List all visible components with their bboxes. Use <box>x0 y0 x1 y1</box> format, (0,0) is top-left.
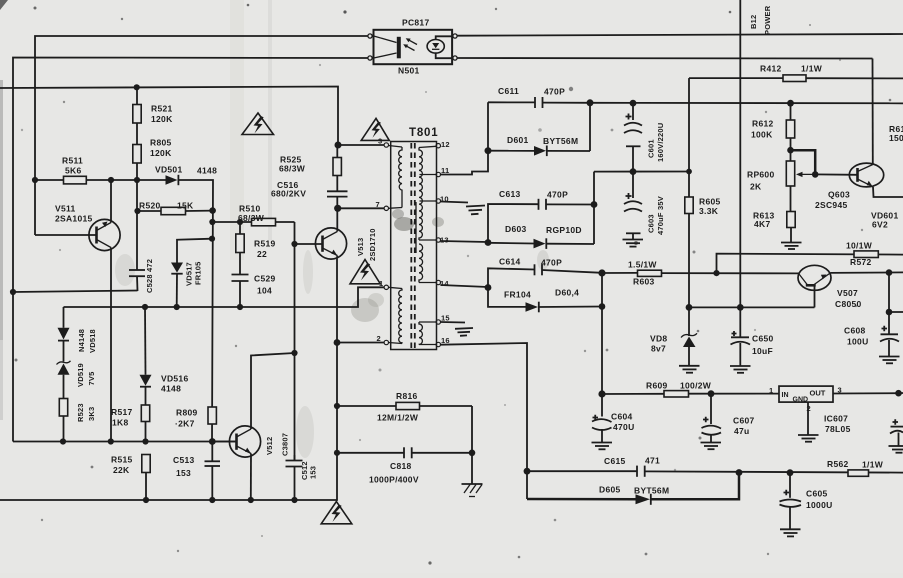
svg-text:C611: C611 <box>498 86 519 96</box>
svg-text:V513: V513 <box>356 238 365 256</box>
resistor R517 <box>111 405 150 442</box>
diode D601 <box>488 135 590 156</box>
capacitor C611 <box>488 86 590 108</box>
lightning triangle warning 1 <box>242 113 274 135</box>
svg-text:FR104: FR104 <box>504 290 531 300</box>
transformer T801 <box>391 127 439 350</box>
node R515 bottom <box>143 497 149 503</box>
wire third bus y87 <box>0 87 338 146</box>
node C611 D601 junction <box>587 99 594 106</box>
resistor R520 <box>139 201 194 215</box>
svg-text:R609: R609 <box>646 381 668 391</box>
resistor R511 <box>62 156 86 184</box>
node R523 bottom <box>60 438 66 444</box>
resistor R603 <box>628 260 662 287</box>
resistor R605 <box>685 172 721 308</box>
capacitor C513 <box>173 442 220 501</box>
wire R805 down through C528 <box>136 163 138 270</box>
transformer secondary winding 13-14 <box>419 244 436 283</box>
label R611 150 edge <box>889 124 903 143</box>
node V511 collector <box>108 177 114 183</box>
svg-text:C604: C604 <box>611 412 633 422</box>
resistor R515 <box>111 455 150 501</box>
ground C650 <box>730 366 751 373</box>
svg-text:150: 150 <box>889 133 903 143</box>
wire V511 collector leg down <box>110 248 112 442</box>
svg-text:3K3: 3K3 <box>87 407 96 421</box>
wire top bus right of optocoupler <box>457 34 903 36</box>
label VD601 6V2 <box>871 211 899 230</box>
wire R603 to V507 collector <box>662 272 799 274</box>
transformer pin 3 <box>378 137 388 148</box>
transformer primary winding 3-7 <box>389 146 403 209</box>
svg-text:GND: GND <box>793 397 809 404</box>
svg-text:120K: 120K <box>151 114 173 124</box>
svg-text:7V5: 7V5 <box>87 372 96 386</box>
svg-text:22K: 22K <box>113 465 130 475</box>
node R609 bus left <box>598 390 605 397</box>
label B12 POWER <box>749 5 772 35</box>
wire Q603 base <box>815 173 857 175</box>
svg-text:R612: R612 <box>752 119 774 129</box>
wire pin3 <box>338 144 384 146</box>
svg-text:RP600: RP600 <box>747 170 775 180</box>
svg-text:V512: V512 <box>265 437 274 455</box>
svg-text:1.5/1W: 1.5/1W <box>628 260 657 270</box>
ground C603 <box>623 240 644 247</box>
node RP600 wiper feedback <box>787 147 794 154</box>
transformer pin 13 <box>436 236 449 245</box>
svg-text:Q603: Q603 <box>828 190 850 200</box>
node VD517 wire <box>209 236 215 242</box>
node R520 right <box>209 207 216 214</box>
svg-text:471: 471 <box>645 456 660 466</box>
ground VD8 <box>679 366 700 373</box>
svg-text:1/1W: 1/1W <box>862 460 884 470</box>
wire R609 to IC607 <box>689 393 780 395</box>
svg-text:470uF 35V: 470uF 35V <box>656 196 665 235</box>
svg-text:N4148: N4148 <box>77 329 86 352</box>
node C607 top <box>708 390 715 397</box>
node C601 bottom <box>630 168 637 175</box>
node V512 emitter bottom <box>248 497 254 503</box>
svg-text:12M/1/2W: 12M/1/2W <box>377 413 419 423</box>
capacitor C650 electrolytic <box>731 307 774 365</box>
wire pin 10 stub <box>441 202 469 203</box>
transformer pin 2 <box>377 334 389 345</box>
transformer pin 10 <box>436 195 449 204</box>
wire pin7 <box>338 207 384 209</box>
resistor R612 <box>751 103 795 161</box>
svg-text:2SD1710: 2SD1710 <box>368 228 377 261</box>
potentiometer RP600 <box>747 161 815 192</box>
resistor R519 <box>236 222 276 259</box>
svg-text:153: 153 <box>309 466 318 479</box>
wire V507 emitter to output <box>831 271 903 274</box>
transformer primary winding 1-2 <box>389 287 403 343</box>
wire IC607 output <box>833 392 899 394</box>
svg-text:IC607: IC607 <box>824 414 848 424</box>
svg-text:6V2: 6V2 <box>872 220 888 230</box>
svg-text:1000P/400V: 1000P/400V <box>369 475 419 485</box>
wire V513 collector leg <box>336 208 338 231</box>
svg-text:R412: R412 <box>760 64 782 74</box>
svg-text:2: 2 <box>377 334 381 343</box>
svg-text:R515: R515 <box>111 455 133 465</box>
wire pin 16 net <box>441 343 528 499</box>
svg-text:V507: V507 <box>837 288 858 298</box>
svg-text:1000U: 1000U <box>806 500 833 510</box>
capacitor C607 electrolytic <box>702 394 755 442</box>
node V511 leg bottom <box>108 438 114 444</box>
svg-text:7: 7 <box>376 200 380 209</box>
svg-text:OUT: OUT <box>810 389 826 398</box>
diode D603 <box>488 224 594 249</box>
transformer pin 1 <box>379 279 388 289</box>
capacitor C603 electrolytic <box>624 172 665 239</box>
transistor V511 2SA1015 <box>55 204 120 251</box>
svg-text:·2K7: ·2K7 <box>175 419 195 429</box>
transformer pin 15 <box>436 314 450 325</box>
wire V511 base <box>35 234 97 236</box>
svg-text:68/3W: 68/3W <box>238 213 265 223</box>
svg-text:VD518: VD518 <box>88 329 97 353</box>
resistor R412 <box>689 64 903 82</box>
svg-text:R605: R605 <box>699 197 721 207</box>
svg-text:IN: IN <box>782 392 789 399</box>
svg-text:22: 22 <box>257 249 267 259</box>
svg-text:10/1W: 10/1W <box>846 241 873 251</box>
svg-text:C603: C603 <box>647 214 656 233</box>
ground chassis C818 <box>462 484 483 497</box>
svg-text:VD519: VD519 <box>76 363 85 387</box>
svg-text:RGP10D: RGP10D <box>546 225 582 235</box>
capacitor C529 <box>232 253 276 308</box>
svg-text:1: 1 <box>769 386 773 395</box>
node pin13 D603 <box>485 239 492 246</box>
node R519 top <box>237 219 243 225</box>
svg-text:5K6: 5K6 <box>65 166 82 176</box>
transformer pin 11 <box>436 166 449 177</box>
wire Q603 collector rail <box>872 59 874 165</box>
resistor R525 <box>279 145 341 176</box>
diode FR104 D604 <box>488 288 602 313</box>
resistor R809 <box>175 407 216 429</box>
svg-text:T801: T801 <box>409 127 438 139</box>
node C818 right <box>469 450 476 457</box>
svg-text:C601: C601 <box>647 139 656 158</box>
node FR104 junction <box>599 303 606 310</box>
transformer pin 16 <box>436 336 450 347</box>
wire R510 corner down to V513 base node <box>294 222 296 461</box>
node D601 anode <box>485 147 492 154</box>
ground IC607 <box>798 435 819 442</box>
svg-text:160V/220U: 160V/220U <box>656 123 665 162</box>
svg-text:R816: R816 <box>396 391 418 401</box>
svg-text:R519: R519 <box>254 239 276 249</box>
wire IC607 gnd pin <box>807 402 809 434</box>
svg-text:4148: 4148 <box>197 166 217 176</box>
node R805 bottom <box>134 177 140 183</box>
transformer secondary winding 15-16 <box>419 322 436 345</box>
resistor R523 <box>59 399 96 442</box>
svg-text:POWER: POWER <box>763 5 772 35</box>
node C614 R603 junction <box>598 269 605 276</box>
svg-text:3.3K: 3.3K <box>699 206 719 216</box>
wire bottom bus y441 <box>13 441 237 443</box>
wire V511 emitter leg <box>110 180 112 223</box>
svg-text:78L05: 78L05 <box>825 424 851 434</box>
node C608 tap <box>886 269 893 276</box>
wire R609 bus <box>602 393 664 395</box>
svg-text:12: 12 <box>441 140 450 149</box>
ground C607 <box>701 443 722 450</box>
node R612 top <box>787 100 794 107</box>
svg-text:R572: R572 <box>850 257 872 267</box>
svg-text:C513: C513 <box>173 455 195 465</box>
transistor Q603 2SC945 <box>815 163 884 210</box>
ground pin 15 <box>455 328 473 336</box>
ground C612 edge <box>889 446 903 453</box>
svg-text:VD501: VD501 <box>155 165 183 175</box>
wire C528 bottom to left rail <box>13 291 138 293</box>
svg-text:R603: R603 <box>633 277 655 287</box>
wire secondary return bus y171.5 <box>594 171 689 173</box>
node R521 top <box>134 84 140 90</box>
node R517 bottom <box>142 438 148 444</box>
svg-text:2SA1015: 2SA1015 <box>55 214 93 224</box>
svg-text:153: 153 <box>176 468 191 478</box>
wire D604 junction vertical <box>601 273 603 394</box>
svg-text:4148: 4148 <box>161 384 181 394</box>
node pin2 junction <box>334 339 341 346</box>
transistor V513 2SD1710 <box>315 228 377 261</box>
svg-text:15K: 15K <box>177 201 194 211</box>
svg-text:3: 3 <box>378 137 382 146</box>
transformer pin 14 <box>436 279 449 288</box>
transformer pin 12 <box>436 140 450 149</box>
svg-text:R805: R805 <box>150 138 172 148</box>
node C613 D603 junction <box>591 201 598 208</box>
node V512 collector link <box>291 350 297 356</box>
svg-text:D60,4: D60,4 <box>555 288 579 298</box>
node R520 left <box>134 208 140 214</box>
wire top bus left of optocoupler <box>35 36 368 235</box>
resistor R510 <box>238 204 276 226</box>
svg-text:470P: 470P <box>547 190 568 200</box>
wire V513 base <box>295 243 323 245</box>
capacitor C612 edge electrolytic <box>890 393 903 446</box>
svg-text:PC817: PC817 <box>402 18 430 28</box>
svg-text:N501: N501 <box>398 66 420 76</box>
svg-text:D605: D605 <box>599 485 621 495</box>
wire pin 11 jog <box>441 102 489 174</box>
node VD8 bus <box>686 304 693 311</box>
capacitor C613 <box>488 189 594 243</box>
node V513 base tap <box>291 241 297 247</box>
wire main output bus y103 <box>590 102 903 105</box>
svg-text:FR105: FR105 <box>194 261 203 285</box>
capacitor C615 <box>527 456 903 477</box>
wire pin1 bus corner down diode chain <box>63 307 65 328</box>
ground C605 <box>780 529 801 536</box>
wire C608 branch <box>889 273 903 312</box>
svg-text:100K: 100K <box>751 130 773 140</box>
svg-text:C614: C614 <box>499 257 521 267</box>
node C818 left <box>334 450 340 456</box>
wire wiper feedback L <box>791 150 816 174</box>
svg-text:C818: C818 <box>390 461 412 471</box>
svg-text:R511: R511 <box>62 156 83 166</box>
node C529 bottom <box>237 304 243 310</box>
resistor R816 <box>337 391 472 423</box>
wire R816 right corner down <box>471 406 473 484</box>
diode D605 <box>527 473 739 505</box>
svg-text:14: 14 <box>440 279 449 288</box>
svg-text:120K: 120K <box>150 148 172 158</box>
wire zener bus y307 <box>689 306 815 308</box>
svg-text:C650: C650 <box>752 334 774 344</box>
svg-text:4K7: 4K7 <box>754 219 771 229</box>
node C608 top <box>886 309 893 316</box>
wire pin 15 stub <box>441 321 466 324</box>
resistor R562 <box>827 459 884 476</box>
svg-text:D603: D603 <box>505 224 527 234</box>
wire VD517 top link <box>177 239 212 263</box>
svg-text:VD516: VD516 <box>161 374 189 384</box>
svg-text:1K8: 1K8 <box>112 418 129 428</box>
diode VD517 <box>171 261 203 307</box>
wire R520 row <box>137 210 213 212</box>
svg-text:470P: 470P <box>544 87 565 97</box>
node R511 left <box>32 177 38 183</box>
ground R613 <box>781 243 802 250</box>
svg-text:100U: 100U <box>847 337 869 347</box>
wire bottom bus y500 <box>0 259 337 500</box>
wire pin1 bus y307 <box>64 287 385 307</box>
svg-text:C605: C605 <box>806 489 828 499</box>
svg-text:B12: B12 <box>749 15 758 29</box>
svg-text:47u: 47u <box>734 426 750 436</box>
svg-text:100/2W: 100/2W <box>680 381 712 391</box>
transformer secondary winding 12-11-10-13 <box>419 146 436 240</box>
svg-text:BYT56M: BYT56M <box>543 136 578 146</box>
node C513 bottom <box>209 497 215 503</box>
svg-text:104: 104 <box>257 286 272 296</box>
ground pin 10 <box>466 206 485 215</box>
node left rail C528 <box>10 289 16 295</box>
wire B12 power rail <box>739 0 741 307</box>
svg-text:V511: V511 <box>55 204 76 214</box>
resistor R572 <box>846 241 878 268</box>
svg-text:R517: R517 <box>111 407 133 417</box>
node R809 bottom <box>209 438 216 445</box>
svg-text:470P: 470P <box>541 258 562 268</box>
wire branch up to R572 bus <box>717 254 903 274</box>
wire C512 gap cover <box>294 455 296 500</box>
svg-text:C528 472: C528 472 <box>145 259 154 293</box>
regulator IC607 78L05 <box>769 386 851 435</box>
wire V512 collector L-link <box>251 353 295 427</box>
node R816 left <box>334 403 340 409</box>
svg-text:10uF: 10uF <box>752 346 773 356</box>
svg-text:1: 1 <box>379 279 383 288</box>
node VD517 bottom <box>174 304 180 310</box>
wire pin 14 <box>441 285 489 287</box>
diode VD501 <box>155 165 217 186</box>
node pin7 junction <box>334 205 341 212</box>
svg-text:R520: R520 <box>139 201 161 211</box>
svg-text:C613: C613 <box>499 189 521 199</box>
svg-text:680/2KV: 680/2KV <box>271 189 306 199</box>
wire R412 left corner down to bus171 <box>688 78 690 171</box>
node R605 top <box>686 169 692 175</box>
wire V512 base <box>212 441 236 443</box>
zener VD519 <box>57 361 97 399</box>
capacitor C512 <box>286 461 318 481</box>
ground C604 <box>592 443 613 450</box>
svg-text:VD8: VD8 <box>650 334 667 344</box>
svg-text:C607: C607 <box>733 416 755 426</box>
svg-text:R510: R510 <box>239 204 261 214</box>
node VD516 top <box>142 304 148 310</box>
node C512 bottom <box>291 497 297 503</box>
diode VD516 <box>140 307 189 405</box>
svg-text:R562: R562 <box>827 459 849 469</box>
node D605 bus junction <box>736 469 743 476</box>
svg-text:C608: C608 <box>844 326 866 336</box>
wire second bus right of optocoupler to Q603 collector rail <box>457 57 873 60</box>
node pin14 <box>485 284 492 291</box>
wire pin2 <box>337 342 384 344</box>
transformer winding tap link <box>415 202 417 253</box>
wire R603 output bus <box>602 272 638 274</box>
resistor R613 <box>753 186 795 242</box>
optocoupler N501 PC817 <box>368 30 457 64</box>
wire Q603 emitter out <box>873 187 903 197</box>
wire R521 to R805 <box>136 123 138 145</box>
node pin3 wire corner <box>335 142 342 149</box>
svg-text:BYT56M: BYT56M <box>634 486 669 496</box>
wire VD501 to right corner <box>178 180 213 442</box>
svg-text:470U: 470U <box>613 422 635 432</box>
wire D601 cathode up <box>589 103 591 151</box>
svg-text:C3807: C3807 <box>281 433 290 456</box>
node IC607 out edge <box>895 390 902 397</box>
svg-text:R809: R809 <box>176 408 198 418</box>
node C601 top <box>630 100 637 107</box>
capacitor C608 electrolytic <box>844 312 899 356</box>
capacitor C516 <box>271 176 348 209</box>
wire pin 13 <box>441 241 489 242</box>
capacitor C605 electrolytic <box>780 473 833 529</box>
svg-text:2K: 2K <box>750 182 762 192</box>
svg-text:68/3W: 68/3W <box>279 164 306 174</box>
transistor V507 C8050 <box>798 265 862 309</box>
wire D603 cathode up to bus <box>593 172 595 244</box>
wire R510 row <box>212 221 294 223</box>
transformer pin 7 <box>376 200 389 211</box>
wire R511 row y180 <box>35 179 166 181</box>
ground C608 <box>879 357 900 364</box>
svg-text:C529: C529 <box>254 274 276 284</box>
capacitor C818 <box>337 447 472 484</box>
svg-text:13: 13 <box>440 236 449 245</box>
node base rail branch <box>713 270 719 276</box>
svg-text:R521: R521 <box>151 104 173 114</box>
transistor V512 C3807 <box>229 426 289 500</box>
svg-text:8v7: 8v7 <box>651 344 666 354</box>
